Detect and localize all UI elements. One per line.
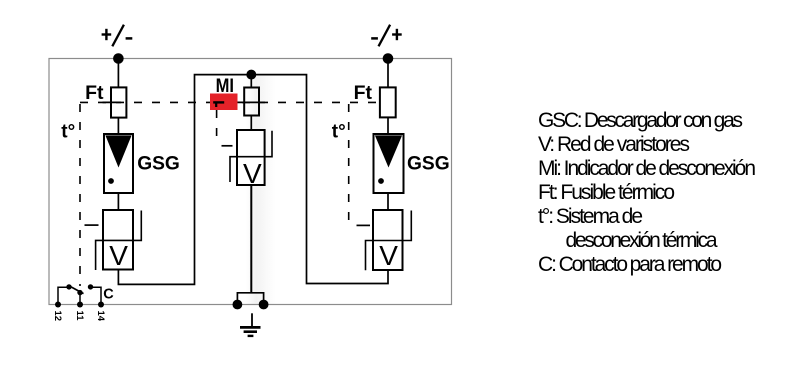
svg-text:Ft: Ft [85,82,104,104]
svg-text:V: Red de varistores: V: Red de varistores [538,133,690,156]
svg-text:12: 12 [52,311,63,322]
svg-text:GSG: GSG [137,154,180,175]
svg-text:t°: Sistema de: t°: Sistema de [538,205,643,228]
svg-text:V: V [379,240,398,271]
svg-text:GSG: GSG [407,154,450,175]
svg-text:t°: t° [332,121,346,142]
svg-text:Mi: Indicador de desconexión: Mi: Indicador de desconexión [538,157,756,180]
svg-text:t°: t° [61,121,75,142]
svg-text:GSC: Descargador con gas: GSC: Descargador con gas [538,109,743,132]
svg-text:desconexión térmica: desconexión térmica [566,229,718,252]
svg-text:C: Contacto para remoto: C: Contacto para remoto [538,253,722,276]
svg-text:14: 14 [95,311,106,322]
svg-text:Ft: Fusible térmico: Ft: Fusible térmico [538,181,675,204]
svg-text:MI: MI [216,75,234,97]
svg-text:Ft: Ft [354,82,373,104]
svg-text:C: C [103,286,114,302]
svg-text:V: V [109,240,128,271]
svg-text:11: 11 [74,311,85,322]
svg-text:V: V [243,158,262,189]
